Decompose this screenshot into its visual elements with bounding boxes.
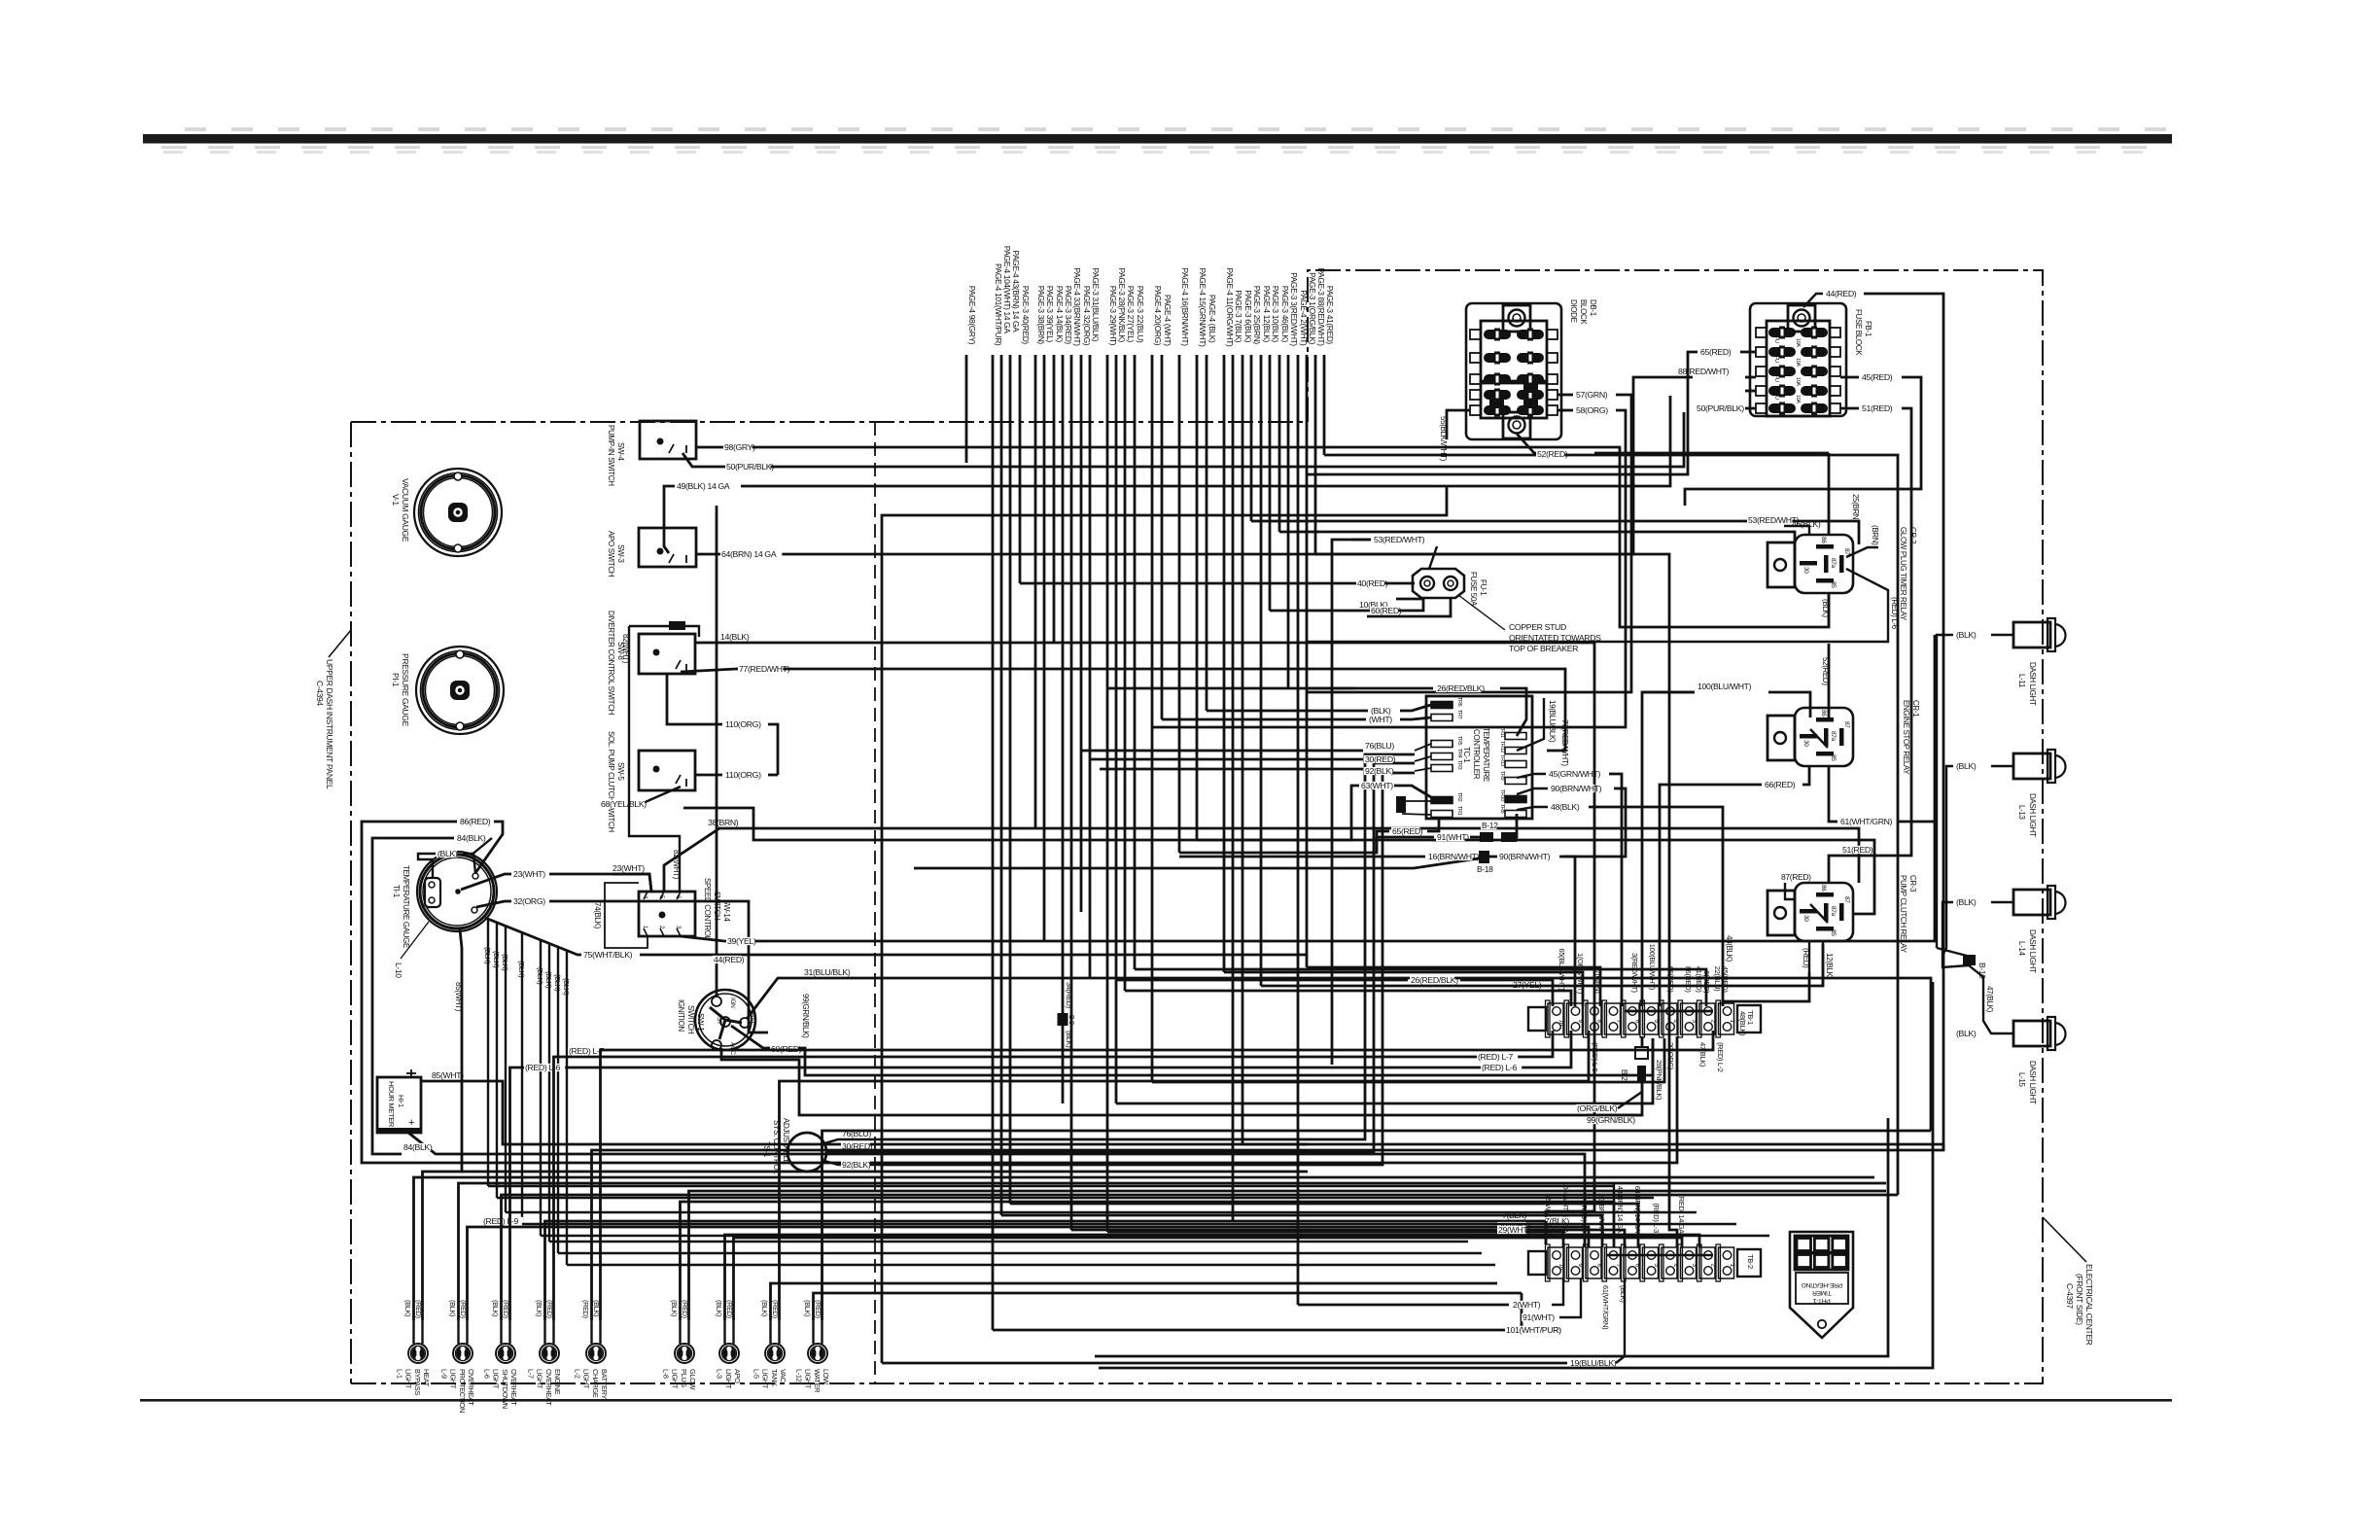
svg-text:(BLK): (BLK) bbox=[535, 1300, 543, 1316]
instrument panel boundary box bbox=[351, 421, 1308, 423]
svg-text:51(RED): 51(RED) bbox=[1862, 403, 1893, 413]
wire 44(RED) ignition bbox=[716, 506, 718, 997]
wire 20(ORG) run bbox=[1152, 1038, 1664, 1082]
svg-text:PAGE-4 16(BRN/WHT): PAGE-4 16(BRN/WHT) bbox=[1180, 268, 1190, 347]
svg-text:PAGE-3 88(RED/WHT): PAGE-3 88(RED/WHT) bbox=[1316, 268, 1326, 347]
TB-2 left labels bbox=[1544, 1217, 1568, 1225]
svg-text:GLOW: GLOW bbox=[688, 1369, 697, 1390]
fuse above SW-8 bbox=[669, 621, 685, 630]
temperature gauge wire 84(BLK) bbox=[471, 838, 492, 856]
wire PAGE-4 33(BRN/WHT) bbox=[1070, 355, 1073, 1230]
svg-text:28(PNK/BLK): 28(PNK/BLK) bbox=[1655, 1060, 1663, 1101]
svg-text:87a: 87a bbox=[1830, 558, 1837, 569]
svg-text:20(ORG): 20(ORG) bbox=[1666, 1042, 1675, 1070]
wire 1(ORG/BLK) run bbox=[1307, 967, 1600, 1006]
temperature gauge wire 32(ORG) bbox=[476, 901, 511, 907]
svg-text:(BRN): (BRN) bbox=[1871, 525, 1879, 545]
fuse 50A FU-1 bbox=[1413, 569, 1464, 598]
svg-text:84(BLK): 84(BLK) bbox=[457, 833, 486, 843]
wire PAGE-4 20(ORG) bbox=[1151, 355, 1154, 1082]
wire PAGE-3 29(WHT) bbox=[1106, 355, 1109, 1232]
svg-text:PAGE-4 20(ORG): PAGE-4 20(ORG) bbox=[1153, 286, 1163, 346]
svg-text:L-13: L-13 bbox=[2017, 805, 2026, 821]
svg-text:44(RED): 44(RED) bbox=[714, 955, 745, 964]
light L-5 leads bbox=[769, 1320, 771, 1344]
svg-text:(BLK): (BLK) bbox=[760, 1300, 769, 1316]
svg-text:100(BLU/WHT): 100(BLU/WHT) bbox=[1697, 682, 1752, 691]
light L-1 leads bbox=[412, 1320, 414, 1344]
svg-text:PAGE-4 98(GRY): PAGE-4 98(GRY) bbox=[967, 286, 977, 345]
TB-1 lower labels bbox=[1477, 1053, 1518, 1061]
vacuum gauge V-1 bbox=[414, 469, 502, 556]
wire 100(BLU/WHT) bbox=[1768, 692, 1810, 717]
TC-1 wire 63(WHT) bbox=[1394, 786, 1431, 797]
svg-text:PRESSURE GAUGE: PRESSURE GAUGE bbox=[401, 653, 410, 727]
temperature gauge wire 86(RED) bbox=[475, 822, 503, 873]
svg-text:90(BRN/WHT): 90(BRN/WHT) bbox=[1499, 852, 1551, 861]
svg-text:V-1: V-1 bbox=[391, 494, 401, 506]
wire 92(BLK) left extension bbox=[1100, 768, 1363, 771]
svg-text:PUMP-IN SWITCH: PUMP-IN SWITCH bbox=[607, 425, 615, 486]
svg-text:99(GRN/BLK): 99(GRN/BLK) bbox=[1587, 1115, 1635, 1125]
dash light lead (BLK) L-13 bbox=[1991, 765, 2013, 767]
svg-text:TR10: TR10 bbox=[1499, 789, 1505, 801]
svg-text:TR1: TR1 bbox=[1456, 806, 1462, 816]
wire 43(BRN) run bbox=[1010, 1204, 1638, 1247]
svg-text:50(PUR/BLK): 50(PUR/BLK) bbox=[726, 462, 774, 472]
wire PAGE-4 15(GRN/WHT) bbox=[1196, 355, 1199, 840]
light L-12 wires bbox=[814, 1293, 1522, 1320]
svg-text:86: 86 bbox=[1820, 885, 1827, 892]
svg-text:(RED) L-7: (RED) L-7 bbox=[569, 1046, 604, 1056]
svg-text:PAGE-4 32(ORG): PAGE-4 32(ORG) bbox=[1082, 286, 1092, 346]
svg-text:61(WHT/GRN): 61(WHT/GRN) bbox=[1840, 817, 1893, 826]
svg-text:LOW: LOW bbox=[822, 1369, 830, 1384]
CR-3 bottom leads bbox=[1808, 941, 1810, 972]
relay CR-3 bbox=[1795, 883, 1853, 941]
svg-text:(BLK): (BLK) bbox=[517, 961, 526, 978]
light L-9 leads bbox=[457, 1320, 459, 1344]
pressure gauge PI-1 bbox=[416, 647, 504, 734]
diode block DB-1 bbox=[1466, 303, 1561, 439]
FB-1 wire 50(PUR/BLK) stub bbox=[1745, 407, 1756, 410]
APO switch SW-3 bbox=[639, 528, 696, 567]
TC-1 wire 30(RED) stub bbox=[1415, 756, 1431, 761]
wire PAGE-3 25(BRN) bbox=[1250, 355, 1253, 521]
svg-text:(RED) L-6: (RED) L-6 bbox=[1890, 597, 1899, 630]
svg-text:B8: B8 bbox=[671, 624, 679, 630]
wire 88(RED/WHT) run bbox=[1315, 377, 1693, 554]
svg-text:87: 87 bbox=[1843, 721, 1850, 728]
wire PAGE-4 98(GRY) bbox=[965, 355, 968, 463]
light L-8 wires bbox=[681, 1202, 1615, 1320]
svg-text:B-12: B-12 bbox=[1482, 821, 1498, 830]
svg-text:91(WHT): 91(WHT) bbox=[1522, 1312, 1555, 1322]
svg-text:L-10: L-10 bbox=[394, 962, 403, 978]
svg-text:+: + bbox=[408, 1117, 414, 1129]
svg-text:68(YEL/BLK): 68(YEL/BLK) bbox=[601, 799, 647, 809]
light L-2 leads bbox=[590, 1320, 592, 1344]
wire PAGE-4 11(ORG/WHT) bbox=[1223, 355, 1226, 972]
svg-text:85(WHT): 85(WHT) bbox=[454, 982, 463, 1012]
wire 110(ORG) SW-8 bbox=[667, 674, 722, 724]
svg-text:DASH LIGHT: DASH LIGHT bbox=[2028, 793, 2037, 837]
ignition switch SW-1 bbox=[695, 990, 755, 1050]
svg-text:85: 85 bbox=[1830, 929, 1837, 936]
wire 66(RED) bbox=[1802, 766, 1809, 785]
svg-text:L-11: L-11 bbox=[2017, 674, 2026, 688]
wire 77(RED/WHT) bbox=[681, 669, 1565, 751]
svg-text:26(RED/BLK): 26(RED/BLK) bbox=[1437, 683, 1485, 693]
svg-text:APO: APO bbox=[733, 1369, 742, 1383]
svg-text:TR6: TR6 bbox=[1456, 697, 1462, 707]
svg-text:(BLK): (BLK) bbox=[553, 974, 562, 992]
TC-1 wire 76(BLU) stub bbox=[1415, 744, 1431, 751]
svg-text:(RED) L-7: (RED) L-7 bbox=[1478, 1052, 1513, 1062]
svg-text:APO SWITCH: APO SWITCH bbox=[607, 531, 615, 577]
svg-text:30: 30 bbox=[1802, 740, 1809, 747]
svg-text:49(BLK) 14 GA: 49(BLK) 14 GA bbox=[677, 481, 730, 491]
CR-1 armature and leads bbox=[1810, 729, 1828, 748]
wire 28(PNK/BLK) run bbox=[1116, 1038, 1653, 1103]
svg-text:L-5: L-5 bbox=[752, 1369, 760, 1379]
svg-text:64(BRN) 14 GA: 64(BRN) 14 GA bbox=[721, 549, 777, 559]
wire 76(BLU) left extension bbox=[1081, 750, 1363, 752]
wire 82(WHT) SW-14 riser bbox=[629, 626, 680, 892]
svg-text:26(RED/BLK): 26(RED/BLK) bbox=[1411, 975, 1458, 985]
svg-text:86: 86 bbox=[1820, 537, 1827, 543]
svg-text:(BLK): (BLK) bbox=[562, 978, 571, 996]
svg-text:77(RED/WHT): 77(RED/WHT) bbox=[739, 664, 790, 674]
svg-text:SW-1: SW-1 bbox=[696, 1013, 705, 1032]
wire PAGE-3 1(ORG/BLK) bbox=[1306, 355, 1309, 967]
FB-1 wire 88(RED/WHT) stub bbox=[1745, 376, 1756, 379]
temperature gauge fan wires and 75(WHT/BLK) bbox=[485, 918, 581, 955]
svg-text:48(BLK): 48(BLK) bbox=[1551, 802, 1580, 812]
svg-text:TOP OF BREAKER: TOP OF BREAKER bbox=[1509, 644, 1578, 653]
svg-text:TR7: TR7 bbox=[1456, 710, 1462, 719]
svg-text:PAGE-4 101(WHT/PUR): PAGE-4 101(WHT/PUR) bbox=[994, 263, 1003, 346]
wire 27(YEL) run bbox=[1125, 991, 1571, 1006]
svg-text:48(BLK): 48(BLK) bbox=[1738, 1011, 1747, 1036]
wire 2(WHT) run bbox=[1298, 1304, 1509, 1307]
svg-text:PAGE-3 41(RED): PAGE-3 41(RED) bbox=[1325, 286, 1335, 345]
wire 22(BLU) run bbox=[1135, 969, 1706, 1006]
indicator light L-3 bbox=[719, 1344, 739, 1363]
label ELECTRICAL CENTER (FRONT SIDE) C-4397 bbox=[2043, 1217, 2086, 1262]
svg-text:C-4397: C-4397 bbox=[2065, 1283, 2075, 1309]
wire lower-right run B bbox=[1099, 982, 1933, 1368]
wire 50(PUR/BLK) bbox=[682, 412, 1684, 467]
svg-text:(WHT): (WHT) bbox=[1369, 715, 1392, 724]
svg-text:PUMP CLUTCH RELAY: PUMP CLUTCH RELAY bbox=[1899, 875, 1907, 954]
wire 29(WHT) run bbox=[1107, 1232, 1563, 1247]
svg-text:PAGE-4 104(WHT) 14 GA: PAGE-4 104(WHT) 14 GA bbox=[1002, 246, 1012, 334]
svg-text:HEAT: HEAT bbox=[422, 1369, 431, 1387]
svg-text:L-2: L-2 bbox=[573, 1369, 581, 1379]
label UPPER DASH INSTRUMENT PANEL C-4394 bbox=[329, 630, 351, 657]
wire 25(BRN) run bbox=[1251, 521, 1859, 544]
svg-text:(RED) 14 GA: (RED) 14 GA bbox=[1677, 1195, 1686, 1235]
wire 14(BLK) bbox=[695, 643, 1594, 1244]
svg-text:PAGE-4 14(BLK): PAGE-4 14(BLK) bbox=[1055, 286, 1065, 343]
label L-10 leader bbox=[401, 922, 429, 959]
svg-text:PAGE-3 10(BLK): PAGE-3 10(BLK) bbox=[1271, 286, 1280, 343]
CR-3 armature and leads bbox=[1810, 904, 1828, 923]
svg-text:50(PUR/BLK): 50(PUR/BLK) bbox=[1697, 403, 1744, 413]
svg-text:TB-2: TB-2 bbox=[1746, 1254, 1755, 1269]
svg-text:110(ORG): 110(ORG) bbox=[725, 770, 761, 780]
TC-1 wire 45(GRN/WHT) bbox=[1517, 774, 1546, 778]
svg-text:PAGE-4 (BLK): PAGE-4 (BLK) bbox=[1207, 295, 1217, 343]
wire PAGE-3 3(RED/WHT) bbox=[1287, 355, 1290, 688]
svg-text:(RED) L-5: (RED) L-5 bbox=[1591, 1042, 1599, 1072]
SW-14 loop wire 74(BLK) bbox=[605, 883, 647, 948]
svg-text:C-4394: C-4394 bbox=[315, 681, 325, 706]
svg-text:(BLK): (BLK) bbox=[715, 1300, 723, 1316]
wire PAGE-4 43(BRN) 14 GA bbox=[1009, 355, 1012, 1204]
svg-text:33(BRN/WHT): 33(BRN/WHT) bbox=[1597, 1195, 1606, 1239]
indicator light L-9 bbox=[453, 1344, 472, 1363]
svg-text:PROTECTION: PROTECTION bbox=[458, 1369, 467, 1413]
svg-text:77(RED/WHT): 77(RED/WHT) bbox=[1560, 719, 1569, 766]
wire 46(BLK) run bbox=[1279, 532, 1795, 550]
diverter control switch SW-8 bbox=[639, 634, 695, 674]
svg-text:L-8: L-8 bbox=[661, 1369, 670, 1379]
wire PAGE-4 104(WHT) 14 GA bbox=[1000, 355, 1003, 1215]
svg-text:VACUUM GAUGE: VACUUM GAUGE bbox=[401, 478, 410, 542]
svg-text:UPPER DASH INSTRUMENT PANEL: UPPER DASH INSTRUMENT PANEL bbox=[325, 659, 334, 789]
svg-text:CONTROLLER: CONTROLLER bbox=[1472, 729, 1481, 780]
light L-1 wires bbox=[414, 1177, 1875, 1320]
svg-text:38(BRN): 38(BRN) bbox=[708, 818, 739, 827]
svg-text:L-6: L-6 bbox=[482, 1369, 491, 1379]
svg-text:(BLK): (BLK) bbox=[544, 971, 553, 989]
svg-text:92(BLK): 92(BLK) bbox=[842, 1160, 871, 1170]
svg-text:LIGHT: LIGHT bbox=[536, 1369, 544, 1389]
terminal strip TB-2 bbox=[1528, 1251, 1546, 1275]
svg-text:22(BLU): 22(BLU) bbox=[1713, 966, 1722, 992]
svg-text:L-14: L-14 bbox=[2017, 941, 2026, 957]
svg-text:CR-3: CR-3 bbox=[1908, 875, 1917, 892]
svg-text:DASH LIGHT: DASH LIGHT bbox=[2028, 662, 2037, 706]
misc vertical drops right side bbox=[1613, 1183, 1615, 1202]
dash light lead (BLK) L-14 bbox=[1991, 901, 2013, 903]
svg-text:74(BLK): 74(BLK) bbox=[593, 902, 602, 929]
svg-text:PRE-HEATING: PRE-HEATING bbox=[1802, 1281, 1842, 1288]
wire PAGE-4 14(BLK) bbox=[1053, 355, 1056, 643]
wire PAGE-3 39(YEL) bbox=[1043, 355, 1046, 941]
wire PAGE-3 28(PNK/BLK) bbox=[1115, 355, 1118, 1103]
indicator light L-1 bbox=[408, 1344, 428, 1363]
svg-text:30: 30 bbox=[1802, 567, 1809, 574]
speed control switch SW-14 bbox=[639, 892, 695, 936]
relay CR-2 bbox=[1795, 535, 1853, 593]
svg-text:PAGE-3 46(BLK): PAGE-3 46(BLK) bbox=[1280, 286, 1290, 343]
svg-text:12(BLK): 12(BLK) bbox=[1825, 953, 1834, 980]
svg-text:61(WHT/GRN): 61(WHT/GRN) bbox=[1601, 1285, 1610, 1330]
svg-text:HI-1: HI-1 bbox=[397, 1095, 405, 1107]
svg-text:53(RED/WHT): 53(RED/WHT) bbox=[1374, 535, 1425, 544]
svg-text:(RED) L-6: (RED) L-6 bbox=[1482, 1063, 1517, 1072]
scan artifact dashes below bar bbox=[161, 146, 187, 149]
wire 68(YEL/BLK) bbox=[641, 787, 681, 804]
wire 23(WHT) SW-14 bbox=[612, 874, 651, 892]
temperature gauge wire 85(WHT) bbox=[460, 929, 1308, 1172]
wire 98(GRY) bbox=[696, 447, 1829, 627]
relay CR-1 bbox=[1795, 708, 1853, 766]
svg-text:66(RED): 66(RED) bbox=[1666, 966, 1675, 994]
svg-text:(BLK): (BLK) bbox=[492, 951, 501, 968]
svg-text:10A: 10A bbox=[1795, 338, 1801, 347]
electrical center boundary box bbox=[1308, 270, 2043, 1383]
FB-1 wire 65(RED) bbox=[1740, 351, 1756, 354]
svg-text:(BLK): (BLK) bbox=[1956, 1029, 1977, 1038]
wire 64(BRN) 14 GA bbox=[696, 554, 1677, 1247]
indicator light L-8 bbox=[675, 1344, 694, 1363]
svg-text:ENGINE STOP RELAY: ENGINE STOP RELAY bbox=[1902, 700, 1910, 775]
svg-text:60(RED): 60(RED) bbox=[1371, 606, 1402, 615]
dash light L-11 bbox=[2013, 622, 2050, 647]
FB-1 wire 49(BLK) stub bbox=[1745, 390, 1756, 393]
dash light lead (BLK) L-15 / 47(BLK) bbox=[1969, 965, 2013, 1033]
svg-text:(ORG/BLK): (ORG/BLK) bbox=[1577, 1103, 1618, 1113]
svg-text:PAGE-3 31(BLU/BLK): PAGE-3 31(BLU/BLK) bbox=[1091, 268, 1101, 342]
wire 12(BLK) run bbox=[1261, 944, 1823, 986]
svg-text:40(RED): 40(RED) bbox=[1357, 578, 1388, 588]
DB-1 wire 57(GRN) bbox=[1557, 394, 1573, 397]
TB-2 wire 19(BLU/BLK) bbox=[1616, 1278, 1625, 1363]
svg-text:ENGINE: ENGINE bbox=[553, 1369, 562, 1395]
svg-text:86: 86 bbox=[1820, 710, 1827, 717]
svg-text:(RED): (RED) bbox=[581, 1300, 590, 1318]
svg-text:(RED) L-6: (RED) L-6 bbox=[525, 1063, 560, 1072]
wire PAGE-3 10(BLK) bbox=[1269, 355, 1272, 611]
svg-text:PAGE-3 27(YEL): PAGE-3 27(YEL) bbox=[1126, 286, 1136, 343]
svg-text:PAGE-4 11(ORG/WHT): PAGE-4 11(ORG/WHT) bbox=[1225, 268, 1235, 347]
svg-text:CR-2: CR-2 bbox=[1908, 527, 1917, 544]
svg-text:86(RED): 86(RED) bbox=[460, 817, 491, 826]
svg-text:30: 30 bbox=[1802, 915, 1809, 922]
svg-text:(BLK): (BLK) bbox=[536, 967, 544, 985]
svg-text:D6: D6 bbox=[1526, 402, 1534, 408]
wire PAGE-3 88(RED/WHT) bbox=[1314, 355, 1317, 554]
svg-text:B-9: B-9 bbox=[1067, 1015, 1074, 1025]
svg-text:34(RED): 34(RED) bbox=[1065, 982, 1073, 1009]
wire PAGE-4 (WHT) bbox=[1161, 355, 1164, 719]
indicator light L-2 bbox=[586, 1344, 606, 1363]
svg-text:SOL. PUMP CLUTCH SWITCH: SOL. PUMP CLUTCH SWITCH bbox=[607, 731, 615, 832]
wire PAGE-4 16(BRN/WHT) bbox=[1178, 355, 1181, 853]
svg-text:PAGE-4 33(BRN/WHT): PAGE-4 33(BRN/WHT) bbox=[1072, 268, 1082, 347]
wire PAGE-3 46(BLK) bbox=[1278, 355, 1281, 532]
DB-1 wire 55(BLK/WHT) bbox=[1447, 410, 1470, 439]
svg-text:19(BLU/BLK): 19(BLU/BLK) bbox=[1570, 1358, 1617, 1368]
TS-1 wire 30(RED) bbox=[826, 1151, 880, 1153]
FU-1 wire 60(RED) bbox=[1367, 598, 1451, 616]
junction B-19 bbox=[1937, 948, 1967, 956]
svg-text:L-12: L-12 bbox=[794, 1369, 803, 1382]
svg-text:ST: ST bbox=[716, 1017, 722, 1025]
svg-text:16(BRN/WHT): 16(BRN/WHT) bbox=[1428, 852, 1480, 861]
svg-text:51(RED): 51(RED) bbox=[1842, 845, 1873, 855]
svg-text:TEMPERATURE GAUGE: TEMPERATURE GAUGE bbox=[402, 865, 410, 948]
svg-text:PAGE-3 1(ORG/BLK): PAGE-3 1(ORG/BLK) bbox=[1308, 272, 1317, 345]
svg-text:14(BLK): 14(BLK) bbox=[720, 632, 750, 642]
hour meter HI-1 bbox=[377, 1077, 421, 1133]
TC-1 wire 92(BLK) stub bbox=[1415, 768, 1431, 771]
svg-text:87a: 87a bbox=[1830, 906, 1837, 917]
svg-text:B-18: B-18 bbox=[1477, 864, 1493, 874]
svg-text:(BLK): (BLK) bbox=[803, 1300, 812, 1316]
TC-1 resistor loop bbox=[1402, 800, 1431, 802]
svg-text:L-15: L-15 bbox=[2017, 1072, 2026, 1088]
FB-1 wire 44(RED) bbox=[1803, 294, 1823, 307]
wire 110(ORG) SW-5 bbox=[696, 774, 722, 777]
dash light L-14 bbox=[2013, 890, 2050, 915]
svg-text:86(RED): 86(RED) bbox=[1684, 966, 1693, 994]
svg-text:TR5: TR5 bbox=[1456, 736, 1462, 746]
wire PAGE-3 6(BLK) bbox=[1242, 355, 1244, 1144]
svg-text:31(BLU/BLK): 31(BLU/BLK) bbox=[804, 967, 851, 977]
svg-text:99(GRN/BLK): 99(GRN/BLK) bbox=[801, 994, 810, 1038]
svg-text:FUSE BLOCK: FUSE BLOCK bbox=[1854, 309, 1863, 356]
svg-text:TR2: TR2 bbox=[1456, 792, 1462, 802]
TS-1 wire 76(BLU) bbox=[824, 1139, 880, 1143]
svg-text:(BLK): (BLK) bbox=[1065, 1031, 1073, 1048]
svg-text:84(BLK): 84(BLK) bbox=[403, 1142, 433, 1152]
wire (RED) L-1 to B-18 bbox=[914, 858, 1479, 868]
dash light L-15 bbox=[2013, 1021, 2050, 1046]
junction B-18 bbox=[1427, 853, 1472, 860]
svg-text:FU: FU bbox=[1773, 356, 1779, 363]
SW-8 loop wire 82(WHT) bbox=[629, 625, 669, 627]
svg-text:65(RED): 65(RED) bbox=[1392, 826, 1423, 836]
wire 104(WHT) run bbox=[1001, 1215, 1602, 1247]
svg-text:LIGHT: LIGHT bbox=[449, 1369, 458, 1389]
svg-text:TC-1: TC-1 bbox=[1462, 747, 1471, 763]
svg-text:98(GRY): 98(GRY) bbox=[724, 442, 755, 452]
svg-text:CHARGE: CHARGE bbox=[591, 1369, 600, 1398]
svg-text:45(RED): 45(RED) bbox=[1721, 966, 1730, 994]
svg-text:65(RED): 65(RED) bbox=[1700, 347, 1732, 357]
svg-text:LIGHT: LIGHT bbox=[724, 1369, 733, 1389]
svg-text:64(BRN) 14 GA: 64(BRN) 14 GA bbox=[1633, 1186, 1642, 1233]
pump-in switch SW-4 bbox=[640, 421, 696, 459]
wire 6(BLK) run bbox=[1242, 1143, 1943, 1146]
svg-text:LIGHT: LIGHT bbox=[671, 1369, 680, 1389]
TC-1 wire (BLK) bbox=[1400, 705, 1431, 711]
svg-text:TR9: TR9 bbox=[1499, 771, 1505, 781]
svg-text:VAC.: VAC. bbox=[779, 1369, 787, 1384]
svg-text:FU: FU bbox=[1773, 393, 1779, 400]
svg-text:(BLK): (BLK) bbox=[670, 1300, 679, 1316]
junction B-12 bbox=[1509, 814, 1517, 837]
svg-text:(BLK): (BLK) bbox=[1956, 897, 1977, 907]
wire 49(BLK) 14 GA bbox=[664, 486, 675, 553]
svg-text:25(BRN): 25(BRN) bbox=[1851, 494, 1860, 522]
svg-text:TANK: TANK bbox=[770, 1369, 779, 1386]
svg-text:OVERHEAT: OVERHEAT bbox=[509, 1369, 518, 1406]
svg-text:PAGE-3 3(RED/WHT): PAGE-3 3(RED/WHT) bbox=[1289, 272, 1299, 346]
indicator light L-12 bbox=[808, 1344, 827, 1363]
svg-text:(BLK): (BLK) bbox=[403, 1300, 412, 1316]
temperature gauge wire 23(WHT) bbox=[461, 874, 511, 890]
temperature controller TC-1 bbox=[1426, 696, 1532, 819]
svg-text:66(RED): 66(RED) bbox=[1765, 780, 1796, 789]
svg-text:(BLK): (BLK) bbox=[448, 1300, 457, 1316]
svg-text:PAGE-4 (WHT): PAGE-4 (WHT) bbox=[1163, 295, 1172, 346]
